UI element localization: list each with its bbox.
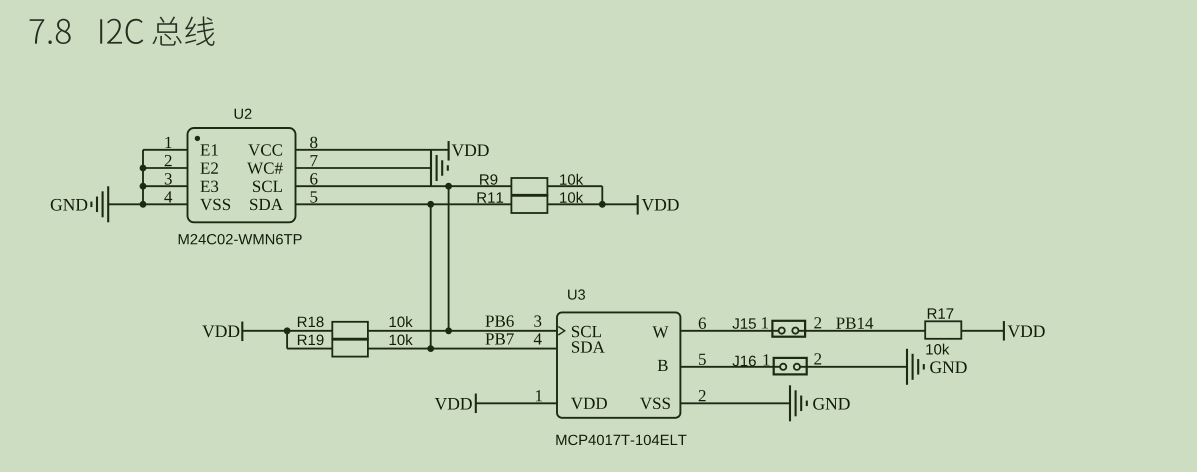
net label VDD mid left bbox=[202, 326, 239, 338]
junction R9-R11 join bbox=[599, 201, 606, 208]
wire pin8 VCC bbox=[296, 149, 449, 151]
pin number 1 of J16 bbox=[764, 354, 770, 365]
U2 pin name WC# bbox=[247, 162, 283, 174]
IC U2 body bbox=[188, 128, 296, 222]
wire PB7 bbox=[368, 348, 557, 350]
pin number 1 of U3 bbox=[536, 390, 542, 401]
junction pin4 bbox=[140, 201, 147, 208]
wire SCL column down bbox=[448, 186, 450, 331]
pin number 1 of J15 bbox=[762, 317, 768, 328]
pin number 3 of U3 bbox=[534, 315, 541, 327]
U2 pin name VSS bbox=[200, 199, 230, 211]
net label GND left bbox=[51, 199, 88, 211]
label R9 bbox=[480, 174, 497, 185]
label R17 bbox=[928, 308, 954, 318]
wire SDA column down bbox=[430, 204, 432, 348]
pin number 1 bbox=[166, 137, 172, 148]
wire VSS to ground bbox=[680, 402, 790, 404]
wire B to J16 bbox=[680, 366, 780, 368]
wire pin2 E2 bbox=[143, 167, 188, 169]
junction pin2 bbox=[140, 165, 147, 172]
wire VDD to U3 pin1 bbox=[476, 402, 557, 404]
wire pin7 WC# bbox=[296, 167, 432, 169]
wire PB6 bbox=[368, 330, 557, 332]
ground symbol left bbox=[91, 186, 108, 222]
U3 designator bbox=[568, 289, 585, 299]
ground symbol at WC# bbox=[431, 150, 448, 186]
label R19 bbox=[298, 335, 324, 346]
ground symbol at VSS bbox=[790, 385, 807, 421]
net label VDD bottom left bbox=[435, 398, 472, 410]
label R11 bbox=[478, 192, 504, 202]
pin number 4 bbox=[164, 191, 172, 202]
jumper J15 bbox=[772, 321, 805, 337]
wire W to J15 bbox=[680, 330, 778, 332]
net label GND at J16 bbox=[930, 361, 967, 373]
value 10k of R17 bbox=[926, 344, 949, 355]
net label GND at VSS bbox=[813, 398, 850, 410]
resistor R9 bbox=[511, 178, 547, 195]
U3 pin name VSS bbox=[640, 398, 670, 410]
label R18 bbox=[298, 317, 324, 328]
pin number 4 of U3 bbox=[534, 333, 542, 344]
power port bar VDD U3 bbox=[475, 394, 477, 414]
U2 pin name E2 bbox=[201, 162, 218, 173]
ground symbol at J16 bbox=[907, 349, 924, 385]
junction SDA column to PB7 bbox=[427, 345, 434, 352]
pin number 6 bbox=[310, 173, 317, 185]
junction VDD split bbox=[284, 327, 291, 334]
U2 pin name E3 bbox=[201, 181, 219, 193]
wire to R18 bbox=[287, 330, 332, 332]
U2 designator bbox=[235, 109, 252, 119]
value 10k of R11 bbox=[560, 192, 583, 203]
U3 pin name SDA bbox=[572, 341, 605, 353]
wire pin4 VSS bbox=[108, 203, 188, 205]
U3 part number MCP4017T-104ELT bbox=[556, 435, 686, 445]
U3 pin name VDD bbox=[571, 398, 607, 409]
title 7.8 I2C bus bbox=[30, 16, 215, 46]
power port VDD at U2 VCC bbox=[449, 141, 489, 161]
wire VDD to junction bbox=[242, 330, 287, 332]
power port VDD right bbox=[1004, 321, 1045, 341]
pin number 5 of U3 bbox=[699, 354, 706, 365]
wire R11 right bbox=[547, 203, 637, 205]
wire R9 right bbox=[547, 186, 602, 204]
wire pin3 E3 bbox=[143, 185, 188, 187]
shared resistor edge R18 R19 bbox=[332, 338, 368, 341]
resistor R19 bbox=[332, 339, 368, 356]
pin number 3 bbox=[165, 173, 172, 185]
U2 pin name E1 bbox=[201, 144, 218, 155]
U3 pin name SCL bbox=[572, 326, 601, 338]
label J15 bbox=[733, 318, 756, 328]
wire J16 to ground bbox=[800, 366, 907, 368]
resistor R18 bbox=[332, 322, 368, 339]
net label PB14 bbox=[836, 318, 873, 329]
junction SDA to column bbox=[427, 201, 434, 208]
pin number 2 of U3 bbox=[699, 390, 706, 401]
pin number 5 bbox=[311, 191, 318, 202]
value 10k of R9 bbox=[560, 174, 583, 185]
U2 part number M24C02-WMN6TP bbox=[179, 234, 302, 244]
net label PB6 bbox=[486, 315, 514, 327]
junction SCL to column bbox=[445, 183, 452, 190]
jumper J16 bbox=[774, 358, 807, 375]
U3 pin name B bbox=[658, 360, 668, 371]
wire left bus vertical bbox=[142, 150, 144, 205]
power port VDD right of R11 bbox=[638, 195, 679, 215]
shared resistor edge bbox=[511, 194, 547, 197]
value 10k of R19 bbox=[390, 334, 413, 345]
wire J15 to R17 bbox=[799, 330, 926, 332]
U2 pin name SDA bbox=[250, 199, 283, 211]
pin number 7 bbox=[311, 155, 318, 166]
pin number 6 of U3 bbox=[699, 318, 706, 330]
resistor R17 bbox=[925, 321, 961, 339]
IC U3 body bbox=[557, 312, 680, 417]
U2 pin name SCL bbox=[253, 181, 282, 193]
pin number 2 of J16 bbox=[814, 353, 821, 364]
net label PB7 bbox=[486, 333, 514, 344]
resistor R11 bbox=[511, 195, 547, 213]
wire R17 to VDD bbox=[961, 330, 1004, 332]
pin number 2 bbox=[165, 155, 172, 166]
wire pin1 E1 bbox=[143, 149, 188, 151]
junction SCL column to PB6 bbox=[445, 327, 452, 334]
pin number 8 bbox=[310, 137, 317, 149]
label J16 bbox=[733, 356, 756, 367]
wire pin6 SCL net bbox=[296, 185, 512, 187]
wire pin5 SDA net bbox=[296, 203, 512, 205]
U3 clock marker at SCL bbox=[558, 327, 564, 335]
power port bar VDD mid left bbox=[241, 322, 243, 342]
junction pin3 bbox=[140, 183, 147, 190]
wire down to R19 bbox=[287, 331, 332, 349]
value 10k of R18 bbox=[390, 316, 413, 327]
U3 pin name W bbox=[653, 326, 669, 337]
U2 pin name VCC bbox=[248, 144, 282, 156]
pin number 2 of J15 bbox=[814, 317, 821, 328]
